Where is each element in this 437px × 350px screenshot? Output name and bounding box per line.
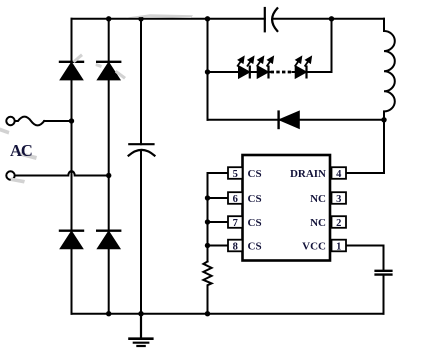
diode (bridge, bottom-left): cathode bar [60, 229, 83, 231]
svg-text:4: 4 [336, 169, 342, 180]
node: CS bus pin 6 [205, 195, 210, 200]
LED 2: triangle [258, 67, 268, 78]
fuse (squiggle on top AC lead) [15, 117, 44, 126]
wire: VCC cap upper stem [383, 246, 385, 271]
pin 1 box [332, 240, 347, 252]
wire: top rail right segment (series cap to inductor corner) [273, 18, 384, 20]
wire: pin 4 stub [346, 172, 384, 174]
svg-text:AC: AC [10, 141, 32, 160]
node: AC top to left bridge leg [69, 118, 74, 123]
pin 4 box [332, 167, 347, 179]
wire: CS bus vertical (pins 5-8 down to resistor) [207, 173, 209, 262]
svg-text:7: 7 [233, 218, 238, 229]
wire: top rail left segment (bridge output to series cap) [72, 18, 265, 20]
wire: LED branch vertical (top rail down to freewheel line) [207, 19, 209, 120]
wire: VCC pin 1 stub [346, 245, 384, 247]
svg-text:CS: CS [248, 168, 262, 180]
wire: LED string right riser to top rail [331, 19, 333, 72]
wire: dashed continuation (more LEDs) [271, 71, 292, 74]
wire: cap branch upper stem [140, 19, 142, 144]
svg-text:6: 6 [233, 194, 238, 205]
node: CS bus pin 7 [205, 219, 210, 224]
diode (bridge, top-right): triangle [98, 63, 119, 79]
node: inductor bottom / freewheel / drain [381, 117, 386, 122]
scan artifact group (decorative, faint gray) [0, 14, 193, 183]
diode (bridge, bottom-right): triangle [98, 232, 119, 248]
node: AC bottom to right bridge leg [106, 173, 111, 178]
node: top rail / bulk cap branch [138, 16, 143, 21]
capacitor (VCC bypass): top plate [376, 270, 392, 272]
LED 3: cathode bar [305, 67, 307, 78]
pin 8 box [228, 240, 243, 252]
svg-text:VCC: VCC [302, 240, 326, 252]
svg-text:CS: CS [248, 217, 262, 229]
diode (bridge, bottom-left): triangle [61, 232, 82, 248]
wire: bottom rail [72, 313, 384, 315]
wire: pin 8 stub [208, 245, 229, 247]
svg-text:1: 1 [336, 241, 341, 252]
node: CS bus pin 8 [205, 243, 210, 248]
wire: pin 5 stub [208, 172, 229, 174]
svg-text:CS: CS [248, 240, 262, 252]
pin 3 box [332, 192, 347, 204]
pin 2 box [332, 216, 347, 228]
wire: left bridge leg vertical [71, 19, 73, 314]
diode (bridge, top-left): cathode bar [60, 61, 83, 63]
wire: LED string line right of dashes [293, 71, 332, 73]
AC terminal (top) [6, 117, 14, 125]
LED 1: triangle [239, 67, 249, 78]
pin 6 box [228, 192, 243, 204]
capacitor (bulk): curved bottom plate [129, 150, 155, 156]
op-amp/controller IC U1: body [243, 155, 331, 261]
wire: freewheel diode line [208, 119, 385, 121]
capacitor (bulk, polarized, after bridge): top plate [129, 143, 153, 145]
wire: VCC cap lower stem [383, 275, 385, 314]
wire: LED string line left of dashes [208, 71, 270, 73]
svg-text:NC: NC [310, 217, 326, 229]
capacitor (series, top): curved plate [272, 8, 277, 31]
diode (bridge, bottom-right): cathode bar [97, 229, 120, 231]
svg-text:5: 5 [233, 169, 238, 180]
node: top rail / LED branch [205, 16, 210, 21]
wire: cap branch lower stem [140, 151, 142, 314]
wire: right bridge leg vertical [108, 19, 110, 314]
diode (freewheel): triangle pointing left [280, 112, 299, 128]
svg-text:NC: NC [310, 193, 326, 205]
svg-text:CS: CS [248, 193, 262, 205]
node: bottom rail / resistor [205, 311, 210, 316]
capacitor (series, top, polarized): straight plate [264, 8, 266, 31]
svg-text:2: 2 [336, 218, 341, 229]
LED 2: cathode bar [267, 67, 269, 78]
svg-text:3: 3 [336, 194, 341, 205]
capacitor (VCC bypass): bottom plate [376, 273, 392, 275]
node: bottom rail / right bridge leg [106, 311, 111, 316]
pin 7 box [228, 216, 243, 228]
wire: bottom AC lead with hop over left leg [15, 171, 109, 175]
resistor (CS sense resistor) [203, 262, 211, 314]
diode (freewheel): cathode bar [277, 112, 279, 128]
svg-text:DRAIN: DRAIN [290, 168, 326, 180]
wire: top AC lead to bridge [44, 120, 71, 122]
pin 5 box [228, 167, 243, 179]
ground symbol [130, 314, 153, 346]
diode (bridge, top-left): triangle [61, 63, 82, 79]
inductor (output choke, right side) [384, 19, 395, 120]
wire: pin 6 stub [208, 197, 229, 199]
node: top rail / right bridge leg [106, 16, 111, 21]
LED 3: triangle [296, 67, 306, 78]
diode (bridge, top-right): cathode bar [97, 61, 120, 63]
node: top rail / LED string right riser [329, 16, 334, 21]
AC terminal (bottom) [6, 171, 14, 179]
node: bottom rail / ground branch [138, 311, 143, 316]
node: LED branch / LED string left [205, 69, 210, 74]
LED light arrows (emission arrows above LEDs) [238, 57, 311, 66]
wire: pin 7 stub [208, 221, 229, 223]
LED 1: cathode bar [249, 67, 251, 78]
wire: drain riser (inductor bottom node down to pin 4 level) [383, 120, 385, 173]
svg-text:8: 8 [233, 241, 238, 252]
